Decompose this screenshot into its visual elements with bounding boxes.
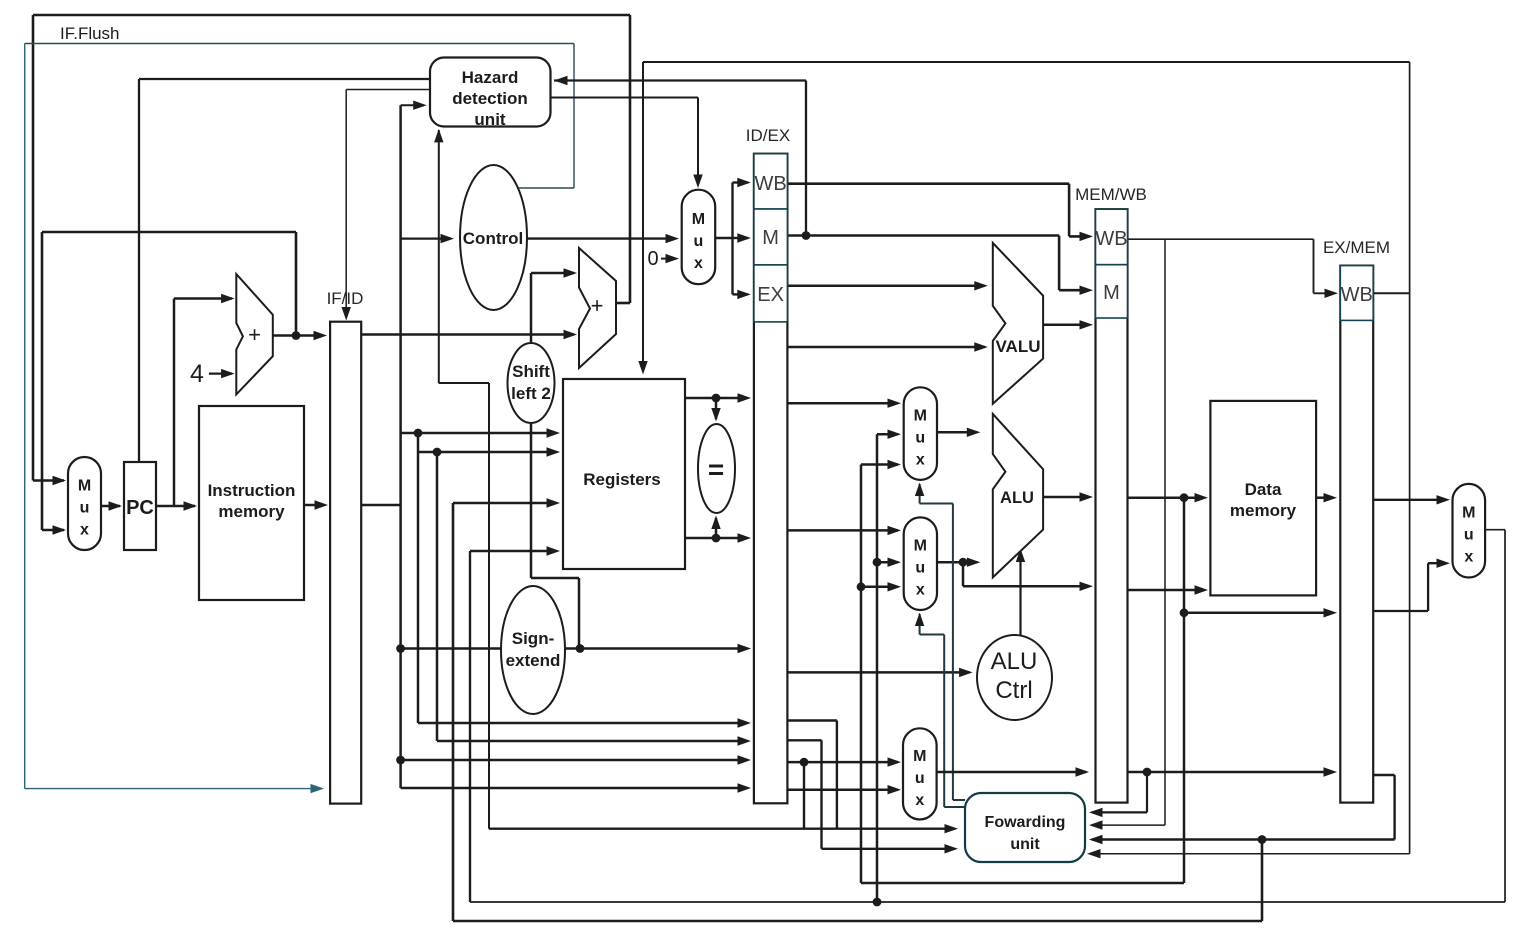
svg-text:ID/EX: ID/EX bbox=[746, 126, 790, 145]
svg-text:Ctrl: Ctrl bbox=[995, 677, 1032, 704]
svg-text:EX/MEM: EX/MEM bbox=[1323, 238, 1390, 257]
svg-text:M: M bbox=[913, 748, 926, 765]
svg-text:M: M bbox=[1462, 505, 1475, 522]
svg-text:M: M bbox=[692, 211, 705, 228]
svg-text:4: 4 bbox=[190, 360, 204, 388]
svg-text:+: + bbox=[248, 322, 261, 347]
svg-text:left 2: left 2 bbox=[511, 384, 551, 403]
svg-text:Control: Control bbox=[463, 229, 523, 248]
svg-text:M: M bbox=[1103, 282, 1120, 304]
svg-text:M: M bbox=[914, 538, 927, 555]
svg-text:+: + bbox=[591, 293, 604, 318]
svg-text:M: M bbox=[762, 227, 779, 249]
svg-text:u: u bbox=[80, 500, 90, 517]
svg-text:u: u bbox=[915, 560, 925, 577]
svg-text:IF/ID: IF/ID bbox=[327, 289, 364, 308]
svg-text:VALU: VALU bbox=[995, 337, 1040, 356]
svg-text:x: x bbox=[1464, 549, 1473, 566]
svg-text:Instruction: Instruction bbox=[208, 481, 296, 500]
svg-text:u: u bbox=[915, 770, 925, 787]
svg-text:u: u bbox=[1464, 527, 1474, 544]
svg-text:M: M bbox=[78, 478, 91, 495]
svg-text:x: x bbox=[915, 792, 924, 809]
svg-text:WB: WB bbox=[1341, 284, 1373, 306]
svg-text:ALU: ALU bbox=[1000, 489, 1034, 507]
svg-text:u: u bbox=[915, 430, 925, 447]
svg-text:memory: memory bbox=[1230, 501, 1297, 520]
svg-text:Fowarding: Fowarding bbox=[985, 814, 1066, 831]
svg-text:EX: EX bbox=[757, 284, 784, 306]
svg-text:Data: Data bbox=[1245, 480, 1282, 499]
svg-text:IF.Flush: IF.Flush bbox=[60, 24, 120, 43]
svg-text:x: x bbox=[916, 452, 925, 469]
svg-text:u: u bbox=[694, 233, 704, 250]
svg-text:unit: unit bbox=[474, 110, 505, 129]
svg-text:WB: WB bbox=[1095, 228, 1127, 250]
svg-text:Sign-: Sign- bbox=[512, 629, 555, 648]
svg-text:0: 0 bbox=[647, 248, 658, 270]
svg-text:=: = bbox=[708, 454, 724, 485]
svg-text:ALU: ALU bbox=[991, 648, 1038, 675]
svg-text:PC: PC bbox=[126, 497, 154, 519]
svg-text:Shift: Shift bbox=[512, 362, 550, 381]
svg-text:WB: WB bbox=[754, 173, 786, 195]
svg-text:M: M bbox=[914, 408, 927, 425]
svg-text:extend: extend bbox=[506, 651, 561, 670]
svg-text:x: x bbox=[694, 255, 703, 272]
svg-text:x: x bbox=[80, 522, 89, 539]
svg-text:Registers: Registers bbox=[583, 470, 660, 489]
svg-text:Hazard: Hazard bbox=[462, 68, 519, 87]
svg-text:unit: unit bbox=[1010, 836, 1040, 853]
svg-text:detection: detection bbox=[452, 89, 528, 108]
svg-text:MEM/WB: MEM/WB bbox=[1075, 185, 1147, 204]
svg-text:memory: memory bbox=[218, 502, 285, 521]
svg-text:x: x bbox=[916, 582, 925, 599]
